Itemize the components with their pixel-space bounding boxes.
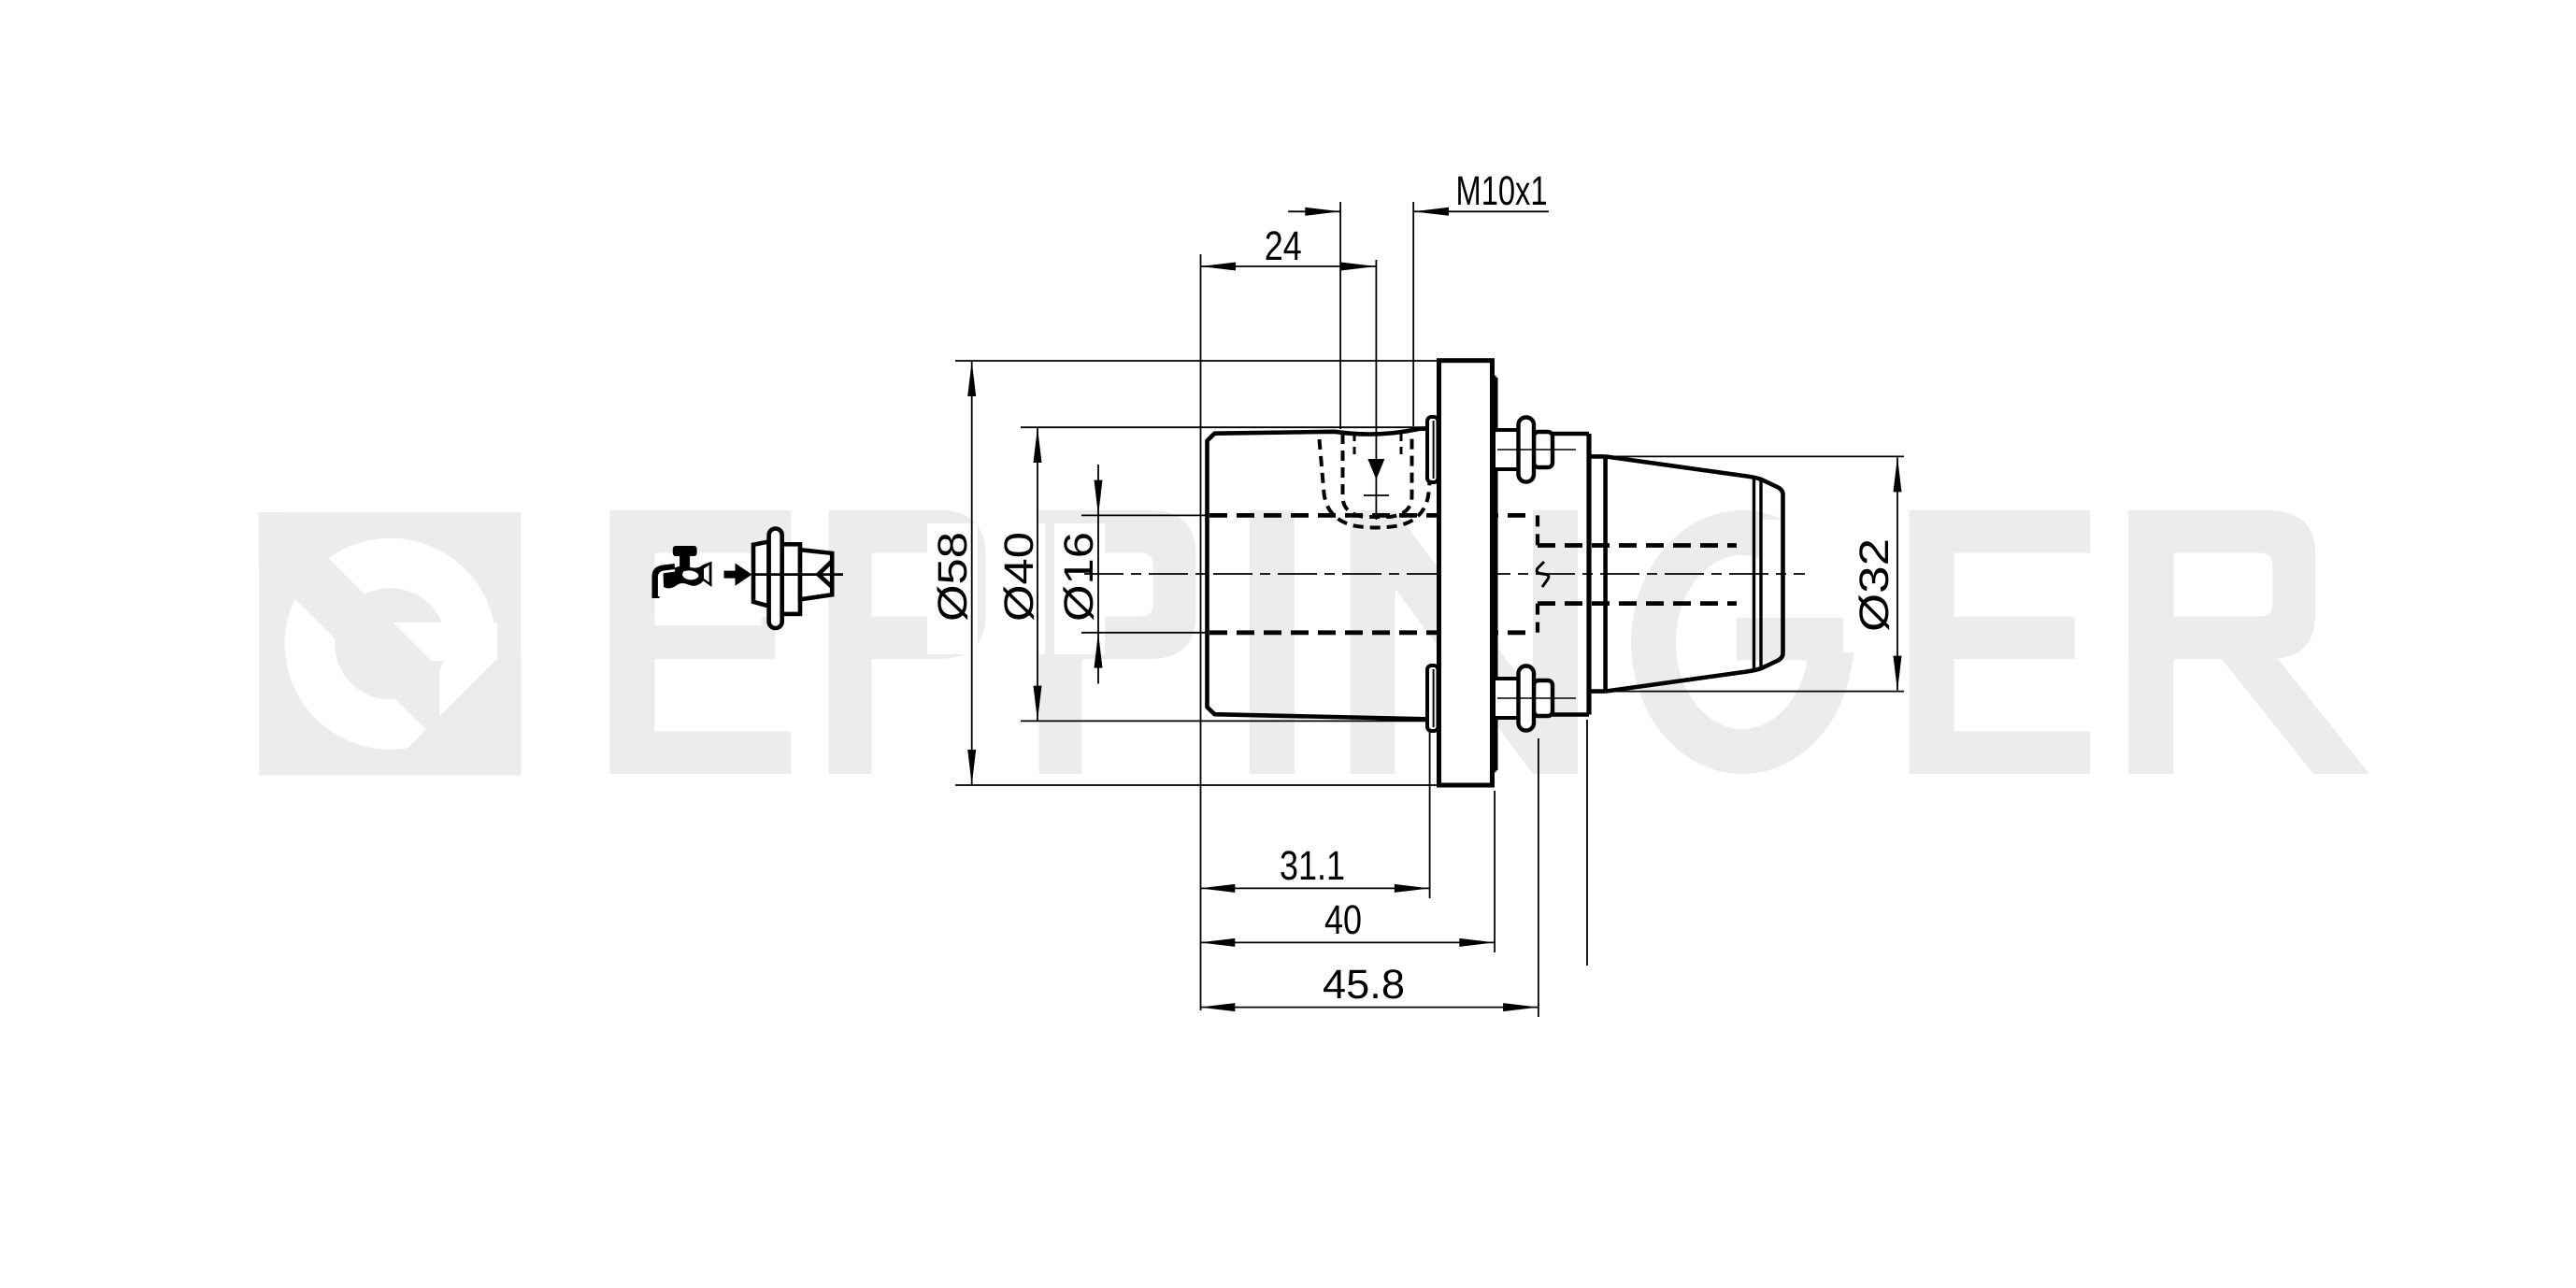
M10 thread dashes bbox=[1353, 434, 1356, 460]
24 arrows bbox=[1200, 263, 1236, 271]
45.8 dimension line bbox=[1200, 1007, 1538, 1009]
Ø40 extension lines bbox=[1021, 426, 1428, 428]
bottom stud nut bbox=[1534, 680, 1553, 716]
coolant faucet icon bbox=[656, 546, 712, 598]
top stud centerline bbox=[1497, 449, 1576, 451]
svg-text:45.8: 45.8 bbox=[1323, 962, 1405, 1008]
top stud washer bbox=[1519, 418, 1535, 482]
svg-text:Ø58: Ø58 bbox=[930, 532, 976, 622]
M10 hole center tick bbox=[1364, 494, 1389, 496]
dimension texts bbox=[930, 168, 1897, 1008]
DIMENSIONS bbox=[955, 202, 1904, 1017]
svg-text:40: 40 bbox=[1324, 897, 1362, 943]
svg-text:24: 24 bbox=[1265, 223, 1302, 269]
hidden bore lines Ø16 bbox=[1209, 515, 1528, 632]
M10 hole inner dashed bbox=[1343, 434, 1412, 517]
hidden bore lines small bbox=[1538, 546, 1737, 604]
M10x1 arrows (outside, pointing in) bbox=[1305, 208, 1340, 216]
extra extension line bbox=[1586, 720, 1588, 966]
40 arrows bbox=[1200, 938, 1236, 947]
Ø32 dimension line bbox=[1896, 458, 1898, 691]
M10 hole centerline vertical bbox=[1375, 260, 1377, 520]
M10 hole outer dashed arc bbox=[1320, 439, 1434, 528]
top stud shank bbox=[1494, 430, 1519, 469]
mini holder chevron bbox=[819, 561, 833, 587]
Ø16 dimension line bbox=[1097, 465, 1099, 684]
svg-text:M10x1: M10x1 bbox=[1456, 168, 1548, 214]
mini holder body trapezoid bbox=[753, 542, 769, 607]
M10x1 extension lines bbox=[1339, 202, 1341, 429]
bottom stud centerline bbox=[1497, 697, 1576, 699]
mini holder neck bbox=[782, 544, 800, 614]
40 dimension line bbox=[1200, 941, 1496, 943]
mounting plate bbox=[1439, 361, 1493, 785]
coolant flow arrow bbox=[724, 564, 752, 586]
hub outline bbox=[1496, 434, 1590, 715]
svg-text:31.1: 31.1 bbox=[1280, 843, 1345, 889]
svg-text:Ø40: Ø40 bbox=[996, 532, 1042, 622]
watermark text EPPINGER bbox=[610, 510, 2370, 774]
31.1 arrows bbox=[1200, 884, 1236, 893]
Ø32 arrows bbox=[1894, 457, 1902, 493]
Ø16 extension lines bbox=[1081, 514, 1206, 516]
bottom stud head bbox=[1427, 665, 1438, 731]
24 dimension line bbox=[1200, 265, 1376, 267]
Ø40 dimension line bbox=[1037, 428, 1038, 721]
Ø16 arrows (outside) bbox=[1095, 480, 1103, 516]
31.1 dimension line bbox=[1200, 887, 1430, 889]
Ø58 arrows bbox=[967, 361, 976, 396]
DRAWING bbox=[1208, 428, 1441, 720]
white halos behind dimension labels bbox=[655, 522, 1897, 654]
M10x1 dimension line bbox=[1288, 210, 1549, 212]
left extension line bbox=[1200, 254, 1202, 1010]
Ø58 dimension line bbox=[971, 362, 973, 784]
40 right extension bbox=[1494, 791, 1496, 952]
45.8 right extension bbox=[1538, 738, 1539, 1017]
watermark logo square bbox=[249, 479, 525, 780]
hub behind plate: left step line bbox=[1493, 378, 1496, 771]
Ø58 extension lines bbox=[955, 360, 1439, 362]
mini holder center line bbox=[753, 573, 843, 576]
bottom stud shank bbox=[1494, 679, 1519, 718]
mini tool-holder icon bbox=[753, 529, 843, 629]
mini holder nose cone bbox=[800, 550, 832, 599]
svg-text:Ø16: Ø16 bbox=[1056, 532, 1102, 622]
center line bbox=[1084, 573, 1805, 575]
top stud head bbox=[1427, 417, 1438, 482]
bottom stud washer bbox=[1519, 666, 1535, 731]
hidden bore step bbox=[1536, 515, 1539, 632]
faucet spout bbox=[656, 567, 676, 598]
faucet stem bbox=[680, 555, 690, 567]
Ø40 arrows bbox=[1034, 427, 1042, 463]
arrowheads bbox=[967, 208, 1901, 1011]
31.1 right extension bbox=[1429, 732, 1431, 898]
clamping nut cone bbox=[1592, 456, 1783, 691]
faucet body bbox=[664, 562, 712, 589]
thread runout zigzag bbox=[1537, 562, 1549, 587]
coolant direction arrow in hole bbox=[1367, 459, 1384, 479]
mini holder flange washer bbox=[769, 529, 782, 629]
main body cylinder bbox=[1208, 428, 1441, 720]
svg-text:Ø32: Ø32 bbox=[1852, 538, 1897, 632]
top stud nut bbox=[1534, 432, 1553, 467]
faucet handle bbox=[673, 546, 697, 556]
45.8 arrows bbox=[1200, 1003, 1236, 1011]
Ø32 extension lines bbox=[1600, 455, 1904, 457]
